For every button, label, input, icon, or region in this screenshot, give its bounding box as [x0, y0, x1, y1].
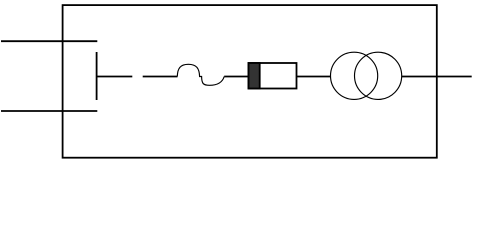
plug prong line N (input lead bottom) [1, 110, 97, 112]
plug prong line L (input lead top) [1, 40, 97, 42]
wire segment D [297, 76, 331, 78]
enclosure box [63, 5, 437, 158]
transformer T1 primary circle [331, 52, 378, 99]
wire segment C [224, 76, 248, 78]
transformer T1 secondary circle [355, 52, 402, 99]
wire segment E (output lead) [402, 76, 472, 78]
wire segment B [143, 76, 178, 78]
diode D1 body [249, 63, 297, 89]
wire segment A [97, 76, 133, 78]
diode D1 cathode band [249, 63, 260, 89]
fuse F1 (thermal cutoff S-curve) [177, 64, 224, 85]
plug contact bar [96, 52, 98, 100]
